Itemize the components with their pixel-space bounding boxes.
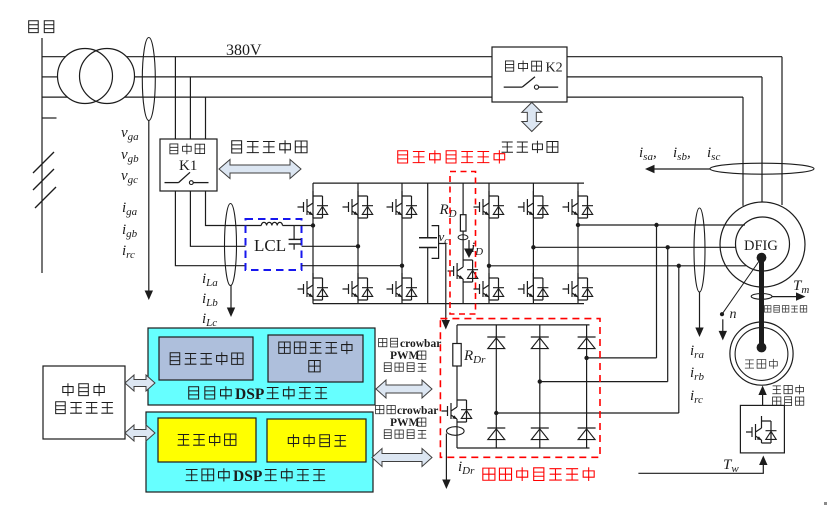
- resistor R_Dr: [453, 344, 461, 367]
- svg-text:DSP: DSP: [233, 468, 263, 485]
- label 网侧控制器 (grid-side controller): [232, 141, 242, 153]
- wire phase A 380V: [42, 56, 65, 58]
- transformer T1 secondary circle: [80, 49, 135, 104]
- wire DC- rail: [313, 303, 584, 305]
- rotor-side controller box: [268, 335, 363, 382]
- label 故障信号 1: [384, 363, 391, 372]
- rotor crowbar dashed box: [440, 319, 600, 458]
- label 转子crowbar: [376, 405, 384, 413]
- wire rotor phase 1: [578, 224, 745, 226]
- wire phase C 380V: [42, 96, 67, 98]
- wire K1 drop B: [189, 77, 191, 139]
- wire crowbar top rail: [457, 324, 590, 326]
- IGBT top leg 5: [518, 191, 549, 218]
- wire below K1 phase c: [175, 191, 245, 266]
- wire LCL to leg2: [302, 245, 358, 247]
- DFIG outer circle: [720, 202, 805, 287]
- label 网侧控制器: [170, 353, 180, 365]
- label 器: [309, 360, 320, 371]
- LCL filter dashed box: [246, 219, 302, 270]
- wire chopper top: [462, 183, 464, 215]
- arrowhead T_w: [759, 456, 767, 466]
- shaft DFIG to prime mover: [759, 258, 764, 348]
- label 原动机变频器: [772, 386, 781, 394]
- generator DSP box: [148, 328, 375, 405]
- wire chopper bottom: [462, 282, 464, 304]
- wire converter leg 2: [357, 183, 359, 304]
- wire crowbar feed 2: [540, 381, 668, 383]
- IGBT top leg 6: [563, 191, 594, 218]
- signal arrow K1-controller: [219, 160, 301, 179]
- IGBT crowbar rotor: [442, 395, 473, 422]
- node shaft top: [757, 253, 767, 263]
- wire below K1 phase a: [206, 191, 253, 226]
- wire DC-link cap top: [427, 183, 429, 238]
- resistor R_D: [460, 215, 466, 231]
- node crowbar 2: [538, 379, 542, 383]
- prime mover converter box: [740, 405, 784, 453]
- diode top leg 2: [531, 337, 549, 349]
- prime mover DSP box: [146, 412, 373, 492]
- wire LCL to leg1: [294, 225, 313, 227]
- label 上位机: [63, 383, 73, 396]
- wire L to C: [293, 226, 295, 240]
- arrowhead vc sense: [442, 320, 450, 330]
- arrowhead iL sensor: [227, 308, 235, 318]
- label 转子低电压穿越 (red): [483, 468, 495, 480]
- node rotor drop 1: [654, 223, 658, 227]
- IGBT top leg 2: [343, 191, 374, 218]
- IGBT bottom leg 6: [563, 273, 594, 300]
- node shaft bottom: [757, 343, 767, 353]
- wire stator drop 2: [761, 77, 763, 202]
- signal arrow genDSP-crowbar: [376, 380, 432, 398]
- CT/PT ellipse grid sensors: [142, 38, 155, 121]
- svg-text:K2: K2: [546, 61, 563, 76]
- wire R_Dr top: [456, 325, 458, 344]
- svg-text:DFIG: DFIG: [744, 238, 778, 254]
- label 电网 (grid): [29, 21, 39, 33]
- wire DC+ rail: [313, 182, 584, 184]
- wire LCL to leg3: [302, 265, 402, 267]
- CT ellipse LCL currents: [225, 204, 237, 286]
- node crowbar 1: [584, 356, 588, 360]
- IGBT top leg 4: [474, 191, 505, 218]
- contactor K1 box: [160, 139, 217, 191]
- wire vc sense down: [439, 244, 446, 322]
- wire R_Dr to IGBT: [456, 366, 458, 395]
- label 发电机DSP控制系统: [189, 387, 199, 399]
- wire below K1 phase b: [190, 191, 245, 246]
- wire stator drop 3: [742, 97, 744, 206]
- wire converter leg 1: [312, 183, 314, 304]
- capacitor C (LCL): [289, 238, 301, 240]
- wire rotor phase 2: [533, 246, 736, 248]
- inductor L (LCL): [252, 225, 294, 227]
- transformer T1 primary circle: [58, 49, 113, 104]
- wire T_w: [638, 462, 763, 473]
- wire i_Dr out: [445, 434, 447, 481]
- wind model box: [267, 419, 366, 462]
- arrowhead rotor sensor: [695, 328, 703, 338]
- ground hatch 3: [35, 187, 56, 208]
- arrow converter to motor: [762, 393, 764, 406]
- wire sensor signal down: [148, 121, 150, 292]
- CT ellipse rotor currents: [694, 208, 705, 292]
- neutral tick on bus: [42, 117, 57, 119]
- label 故障信号 2: [384, 430, 391, 439]
- wire converter leg 3: [401, 183, 403, 304]
- torque sensor ellipse: [751, 294, 772, 300]
- wire phase B 380V: [42, 76, 58, 78]
- master controller box: [158, 418, 256, 462]
- prime mover outer circle: [730, 322, 793, 385]
- wire chopper mid: [462, 231, 464, 255]
- grid-side controller box: [159, 337, 253, 380]
- IGBT bottom leg 2: [343, 273, 374, 300]
- arrow T_m: [772, 296, 797, 298]
- label 原动机DSP控制系统: [186, 470, 198, 481]
- IGBT top leg 3: [387, 191, 418, 218]
- label 原动机 (prime mover): [745, 360, 754, 368]
- arrowhead sensor signal: [145, 291, 153, 301]
- contactor K2 box: [492, 47, 567, 102]
- wire K1 drop C: [205, 97, 207, 139]
- host PC box 上位机监控系统: [43, 366, 125, 439]
- IGBT bottom leg 5: [518, 273, 549, 300]
- node rotor leg 2: [531, 245, 535, 249]
- signal arrow pmDSP-crowbar: [372, 449, 432, 467]
- wire rotor phase 3: [489, 265, 746, 267]
- IGBT chopper DC: [448, 255, 479, 282]
- IGBT bottom leg 3: [387, 273, 418, 300]
- diode bottom leg 2: [531, 428, 549, 440]
- label 监控系统: [56, 402, 66, 414]
- label 主控制器: [178, 434, 190, 445]
- label 接触器 (K1): [170, 144, 178, 154]
- label 风机模型: [288, 434, 298, 447]
- IGBT bottom leg 1: [298, 273, 329, 300]
- wire rotor drop 1: [656, 225, 658, 358]
- svg-text:crowbar: crowbar: [400, 338, 441, 350]
- label 转矩传感器 (torque sensor): [764, 306, 771, 313]
- node rotor leg 3: [487, 264, 491, 268]
- svg-text:LCL: LCL: [254, 236, 286, 255]
- wire rotor drop 2: [667, 247, 669, 381]
- switch K2 contact: [504, 86, 523, 88]
- IGBT prime mover converter: [746, 416, 777, 443]
- label 母线低电压穿越 (red): [398, 151, 408, 163]
- wire crowbar IGBT bottom: [456, 422, 458, 448]
- diode bottom leg 1: [487, 428, 505, 440]
- wire crowbar leg 1: [495, 325, 497, 448]
- diode top leg 3: [578, 337, 596, 349]
- diode top leg 1: [487, 337, 505, 349]
- signal arrow PC-genDSP: [125, 375, 155, 391]
- svg-text:PWM: PWM: [390, 417, 420, 429]
- wire crowbar feed 3: [496, 412, 679, 414]
- switch K1 contact: [165, 182, 179, 184]
- wire crowbar feed 1: [587, 357, 657, 359]
- node leg3 AC: [400, 264, 404, 268]
- node rotor drop 3: [677, 264, 681, 268]
- node crowbar 3: [494, 411, 498, 415]
- arrow i_D: [468, 240, 470, 249]
- signal arrow PC-pmDSP: [125, 425, 155, 441]
- node rotor drop 2: [666, 245, 670, 249]
- arrowhead stator sensor: [645, 165, 655, 173]
- node n: [720, 312, 724, 316]
- DC crowbar dashed box: [450, 172, 476, 315]
- CT ellipse stator currents: [710, 163, 814, 174]
- IGBT top leg 1: [298, 191, 329, 218]
- wire K1 drop A: [174, 57, 176, 139]
- CT ellipse i_Dr: [447, 427, 465, 436]
- signal arrow K2-master: [522, 102, 542, 131]
- voltage sense bracket v_c: [432, 226, 439, 259]
- DFIG inner circle: [736, 217, 790, 271]
- wire converter leg 5: [532, 183, 534, 304]
- IGBT bottom leg 4: [474, 273, 505, 300]
- wire iL sensor down: [230, 286, 232, 309]
- svg-text:K1: K1: [179, 158, 197, 174]
- ground hatch 2: [33, 169, 54, 190]
- wire crowbar leg 3: [586, 325, 588, 448]
- svg-text:PWM: PWM: [390, 350, 420, 362]
- diode bottom leg 3: [578, 428, 596, 440]
- node leg2 AC: [356, 244, 360, 248]
- speed sensor line: [722, 258, 762, 315]
- label 直流crowbar: [379, 338, 387, 346]
- wire rotor sensor down: [699, 292, 701, 329]
- capacitor Cdc plates: [419, 237, 437, 239]
- label 转子侧控制: [279, 342, 290, 353]
- wire crowbar bottom rail: [457, 447, 590, 449]
- wire converter leg 4: [488, 183, 490, 304]
- wire stator drop 1: [781, 57, 783, 205]
- label 接触器K2: [505, 61, 513, 71]
- node rotor leg 1: [576, 223, 580, 227]
- wire rotor drop 3: [678, 266, 680, 413]
- wire converter leg 6: [577, 183, 579, 304]
- arrowhead i_Dr: [442, 480, 450, 490]
- svg-text:380V: 380V: [226, 42, 262, 59]
- arrow n down: [722, 319, 724, 332]
- node leg1 AC: [311, 223, 315, 227]
- stray mark bottom-right: [824, 502, 827, 505]
- wire DC-link cap bottom: [427, 248, 429, 304]
- wire crowbar leg 2: [539, 325, 541, 448]
- svg-text:crowbar: crowbar: [397, 405, 438, 417]
- label 主控制器 (master controller): [501, 142, 512, 152]
- svg-text:DSP: DSP: [235, 386, 265, 403]
- ground hatch 1: [33, 152, 54, 173]
- wire stator sensor left: [654, 168, 711, 170]
- prime mover inner circle: [735, 328, 788, 381]
- CT ellipse i_D: [458, 235, 468, 240]
- wire grid bus: [41, 38, 43, 273]
- svg-text:n: n: [730, 307, 737, 322]
